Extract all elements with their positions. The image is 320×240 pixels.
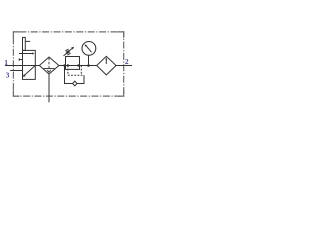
wire valve to filter bbox=[35, 65, 40, 67]
regulator R1 pilot line dashed left bbox=[67, 66, 69, 76]
node junction dot right side of regulator bbox=[77, 64, 79, 66]
filter F1 condensate drain line bbox=[48, 74, 50, 102]
valve V1 blocked port stub bbox=[19, 58, 22, 61]
wire port 1 supply line bbox=[5, 65, 23, 67]
regulator R1 body bbox=[66, 57, 80, 70]
filter F1 water separator diamond bbox=[39, 57, 59, 74]
enclosure frame (dash-dot assembly boundary) bbox=[13, 32, 123, 96]
svg-text:1: 1 bbox=[4, 58, 8, 67]
node junction dot gauge tap bbox=[87, 64, 90, 67]
regulator R1 relief path bbox=[65, 66, 85, 84]
svg-text:2: 2 bbox=[125, 57, 129, 66]
node junction dot pilot left tap bbox=[67, 64, 69, 66]
regulator R1 relief check valve diamond bbox=[73, 81, 77, 86]
wire regulator to lubricator bbox=[80, 65, 97, 67]
regulator R1 pilot line dashed bottom bbox=[68, 74, 84, 76]
wire port 2 output line bbox=[116, 65, 132, 67]
svg-text:3: 3 bbox=[6, 70, 10, 79]
regulator R1 spring adjustment bbox=[64, 47, 75, 56]
frame corner ticks bbox=[13, 32, 123, 96]
valve V1 body (3/2 shut-off valve) bbox=[23, 50, 36, 79]
valve V1 manual slide actuator bbox=[23, 37, 31, 50]
lubricator L1 diamond bbox=[97, 56, 116, 75]
gauge G1 pressure gauge bbox=[82, 42, 96, 66]
node junction dot left of regulator bbox=[63, 64, 65, 66]
wire port 3 exhaust stub bbox=[10, 70, 22, 72]
wire filter to regulator bbox=[59, 65, 66, 67]
valve V1 bottom position diagonal path with arrow bbox=[23, 66, 35, 77]
valve V1 top position flow path with arrow bbox=[19, 53, 35, 55]
regulator R1 pilot line dashed right bbox=[80, 66, 82, 76]
